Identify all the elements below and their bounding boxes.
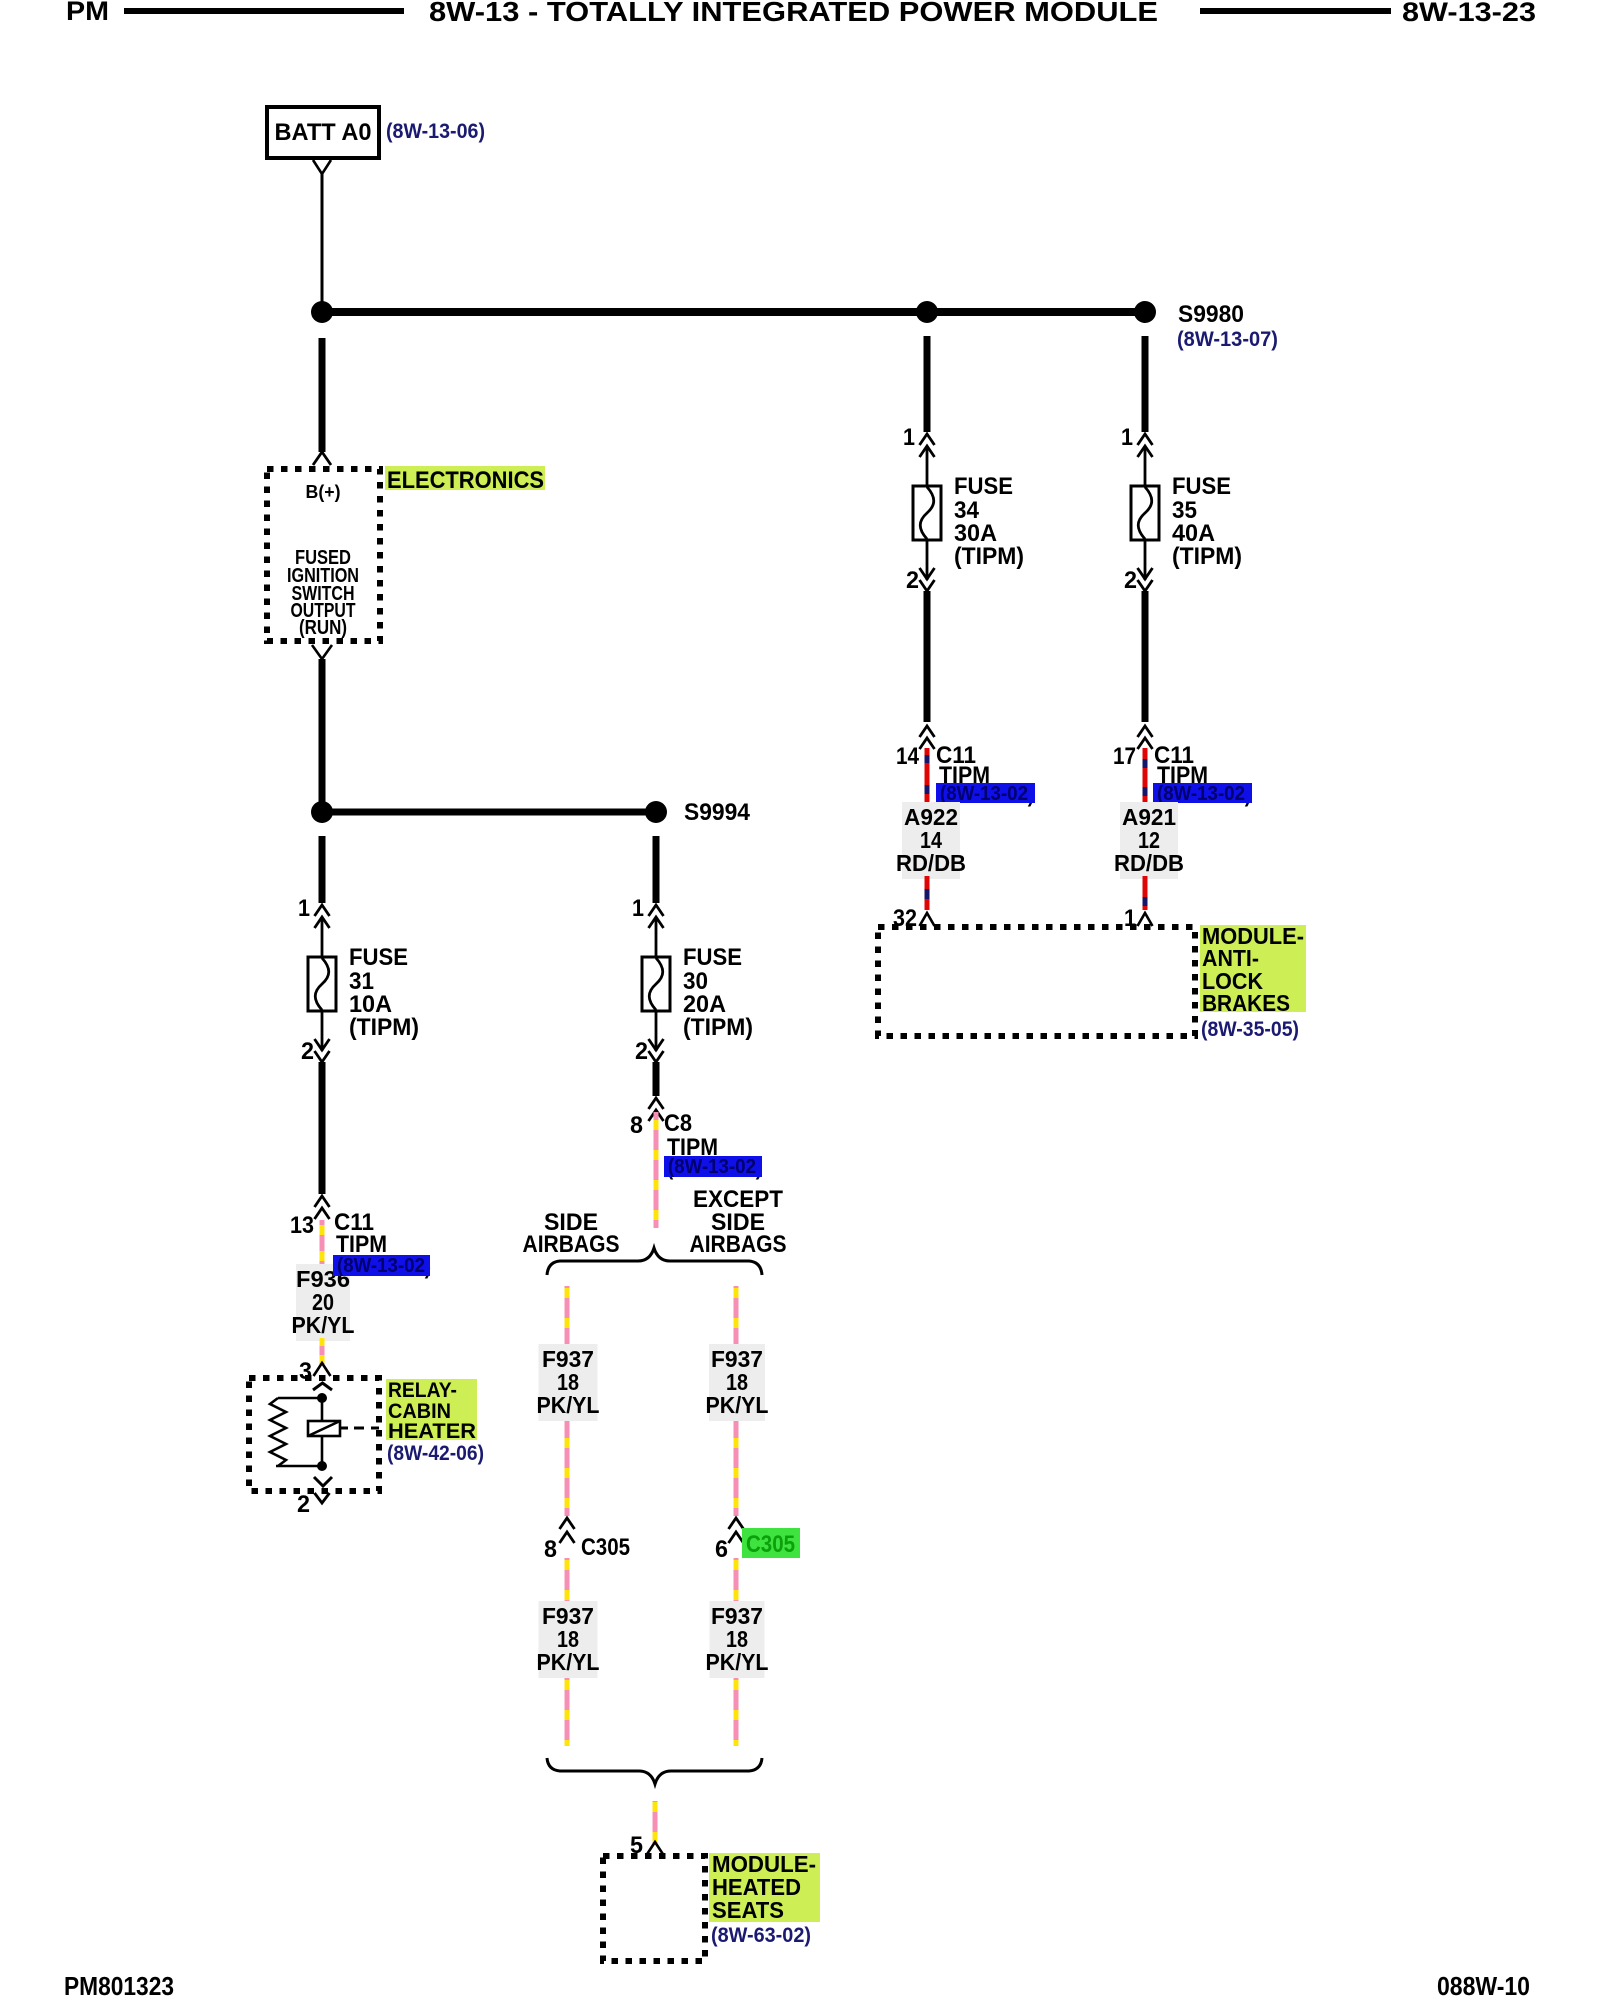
svg-text:FUSE: FUSE <box>1172 473 1231 500</box>
svg-text:S9994: S9994 <box>684 799 751 826</box>
wire fuse 31 pin2 down to C11 <box>319 1062 326 1194</box>
header rule left <box>124 8 404 14</box>
svg-text:8: 8 <box>544 1536 557 1563</box>
svg-text:S9980: S9980 <box>1178 301 1244 328</box>
svg-text:PK/YL: PK/YL <box>537 1649 600 1675</box>
svg-text:8W-13 - TOTALLY INTEGRATED POW: 8W-13 - TOTALLY INTEGRATED POWER MODULE <box>429 0 1158 27</box>
wire PK/YL from C11 pin13 <box>320 1220 325 1266</box>
svg-text:RD/DB: RD/DB <box>1114 850 1184 876</box>
junction dot S9994 left <box>311 801 333 823</box>
svg-text:(8W-13-02: (8W-13-02 <box>940 783 1028 805</box>
svg-text:13: 13 <box>290 1212 314 1239</box>
svg-text:2: 2 <box>906 567 919 594</box>
svg-text:17: 17 <box>1113 743 1136 770</box>
wire RD/DB lower right <box>1143 876 1148 910</box>
fuse F31 10A <box>315 905 330 916</box>
svg-text:BATT A0: BATT A0 <box>275 119 372 146</box>
connector C11 pin 17 chevrons <box>1138 726 1153 737</box>
wire PK/YL below C8 <box>654 1112 659 1228</box>
wire PK/YL to heated seat module <box>653 1801 658 1844</box>
svg-text:PK/YL: PK/YL <box>706 1649 769 1675</box>
connector symbol below BATT A0 <box>313 160 331 174</box>
svg-text:FUSE: FUSE <box>954 473 1013 500</box>
svg-text:RELAY-: RELAY- <box>388 1379 457 1402</box>
relay coil stub <box>340 1427 348 1430</box>
svg-text:FUSE: FUSE <box>683 944 742 971</box>
relay wire resistor bottom <box>276 1465 322 1468</box>
wire RD/DB lower left <box>925 876 930 910</box>
svg-text:(8W-35-05): (8W-35-05) <box>1201 1018 1299 1041</box>
electronics dashed box FUSED IGNITION SWITCH OUTPUT <box>267 469 380 641</box>
label C305 highlighted green <box>742 1528 800 1558</box>
relay-cabin heater dashed box <box>249 1378 379 1491</box>
wire S9980 down to fuse 35 <box>1142 336 1149 432</box>
fuse F34 30A <box>920 434 935 445</box>
svg-text:8W-13-23: 8W-13-23 <box>1402 0 1536 27</box>
svg-text:(8W-13-06): (8W-13-06) <box>386 120 485 143</box>
svg-text:(8W-13-02: (8W-13-02 <box>1157 783 1245 805</box>
wire PK/YL except side airbags lower <box>734 1558 739 1746</box>
fuse F35 40A <box>1138 434 1153 445</box>
label F937 18 PK/YL right lower <box>710 1601 765 1678</box>
header rule right <box>1200 8 1391 14</box>
svg-text:(8W-13-02: (8W-13-02 <box>337 1255 425 1277</box>
connector C305 pin 8 chevrons <box>560 1518 575 1529</box>
svg-text:2: 2 <box>297 1491 310 1518</box>
relay inner chevron at pin 2 <box>314 1477 332 1486</box>
wire label A922 14 RD/DB <box>902 802 960 879</box>
relay resistor zigzag <box>270 1398 286 1466</box>
wire fuse 30 pin2 down to C8 <box>653 1062 660 1096</box>
wire label F936 20 PK/YL <box>296 1264 350 1341</box>
relay bottom junction dot <box>317 1461 327 1471</box>
wire S9994 down to fuse 30 <box>653 836 660 903</box>
svg-text:PM: PM <box>66 0 109 26</box>
svg-text:BRAKES: BRAKES <box>1202 990 1290 1016</box>
connector C305 pin 6 chevrons <box>729 1518 744 1529</box>
wire PK/YL side airbags upper <box>565 1286 570 1516</box>
svg-text:(8W-63-02): (8W-63-02) <box>711 1924 811 1947</box>
wire PK/YL side airbags lower <box>565 1558 570 1746</box>
label F937 18 PK/YL right upper <box>709 1344 765 1421</box>
svg-text:AIRBAGS: AIRBAGS <box>523 1231 620 1258</box>
connector C11 pin 14 chevrons <box>920 726 935 737</box>
svg-text:TIPM: TIPM <box>336 1231 387 1258</box>
connector symbol below electronics box <box>312 645 332 659</box>
relay coil box <box>308 1421 340 1436</box>
label MODULE-HEATED SEATS highlighted <box>709 1853 820 1922</box>
svg-text:PK/YL: PK/YL <box>292 1312 355 1338</box>
svg-text:1: 1 <box>903 424 915 451</box>
wire RD/DB upper right <box>1143 748 1148 803</box>
connector C8 pin 8 chevrons <box>649 1098 664 1109</box>
svg-text:2: 2 <box>635 1038 648 1065</box>
svg-text:HEATER: HEATER <box>388 1420 476 1443</box>
svg-text:PM801323: PM801323 <box>64 1971 174 2000</box>
wire fuse 34 pin2 down to C11 <box>924 591 931 722</box>
svg-text:C305: C305 <box>746 1531 795 1558</box>
connector chevron into electronics box <box>313 452 331 465</box>
label F937 18 PK/YL left upper <box>539 1344 598 1421</box>
junction dot left at x322 <box>311 301 333 323</box>
svg-text:(TIPM): (TIPM) <box>349 1014 419 1041</box>
relay coil vertical wire <box>321 1398 324 1466</box>
splice bus S9980 wire <box>322 308 1145 316</box>
svg-text:(TIPM): (TIPM) <box>683 1014 753 1041</box>
svg-text:(TIPM): (TIPM) <box>1172 543 1242 570</box>
connector C11 pin 13 chevrons <box>315 1196 330 1207</box>
svg-text:1: 1 <box>1121 424 1133 451</box>
svg-text:FUSE: FUSE <box>349 944 408 971</box>
svg-text:088W-10: 088W-10 <box>1437 1971 1530 2000</box>
svg-text:ELECTRONICS: ELECTRONICS <box>387 467 544 494</box>
wire label A921 12 RD/DB <box>1120 802 1178 879</box>
svg-text:1: 1 <box>632 895 644 922</box>
module heated seats dashed box <box>603 1856 705 1961</box>
label F937 18 PK/YL left lower <box>539 1601 598 1678</box>
wire electronics box to splice S9994 <box>319 659 326 806</box>
svg-text:2: 2 <box>301 1038 314 1065</box>
junction dot S9994 right <box>645 801 667 823</box>
label MODULE-ANTI-LOCK BRAKES highlighted <box>1200 925 1306 1012</box>
svg-text:(TIPM): (TIPM) <box>954 543 1024 570</box>
merge brace <box>547 1758 762 1784</box>
svg-text:(RUN): (RUN) <box>299 617 347 639</box>
junction dot right at x1145 <box>1134 301 1156 323</box>
splice bus S9994 wire <box>322 809 656 816</box>
svg-text:B(+): B(+) <box>306 482 341 502</box>
battery feed box BATT A0 <box>267 107 379 158</box>
svg-text:(8W-42-06): (8W-42-06) <box>387 1442 484 1465</box>
relay wire to resistor top <box>278 1397 322 1400</box>
module anti-lock brakes dashed box <box>878 927 1195 1036</box>
wire RD/DB upper left <box>925 748 930 803</box>
svg-text:SEATS: SEATS <box>712 1897 784 1923</box>
fuse F30 20A <box>649 905 664 916</box>
junction dot middle at x927 <box>916 301 938 323</box>
wire S9994 down to fuse 31 <box>319 836 326 903</box>
wire S9980 down to fuse 34 <box>924 336 931 432</box>
svg-text:(8W-13-07): (8W-13-07) <box>1177 328 1278 351</box>
svg-text:14: 14 <box>896 743 920 770</box>
wire fuse 35 pin2 down to C11 <box>1142 591 1149 722</box>
label ELECTRONICS highlighted <box>385 466 545 490</box>
svg-text:C305: C305 <box>581 1534 630 1561</box>
relay inner chevron at pin 3 <box>313 1383 332 1390</box>
svg-text:C8: C8 <box>664 1110 692 1137</box>
wire PK/YL except side airbags upper <box>734 1286 739 1516</box>
svg-text:(8W-13-02: (8W-13-02 <box>668 1156 756 1178</box>
svg-text:1: 1 <box>298 895 310 922</box>
svg-text:PK/YL: PK/YL <box>537 1392 600 1418</box>
svg-text:AIRBAGS: AIRBAGS <box>690 1231 787 1258</box>
svg-text:2: 2 <box>1124 567 1137 594</box>
svg-text:6: 6 <box>715 1536 728 1563</box>
relay top junction dot <box>317 1393 327 1403</box>
wire S9980 down to electronics connector <box>319 338 326 452</box>
wire PK/YL to relay <box>320 1338 325 1364</box>
wire BATT A0 to splice S9980 <box>321 174 324 304</box>
svg-text:8: 8 <box>630 1112 643 1139</box>
split brace <box>547 1248 762 1275</box>
label RELAY-CABIN HEATER highlighted <box>386 1379 477 1440</box>
relay coil dashed actuation line <box>354 1427 379 1430</box>
svg-text:PK/YL: PK/YL <box>706 1392 769 1418</box>
svg-text:RD/DB: RD/DB <box>896 850 966 876</box>
